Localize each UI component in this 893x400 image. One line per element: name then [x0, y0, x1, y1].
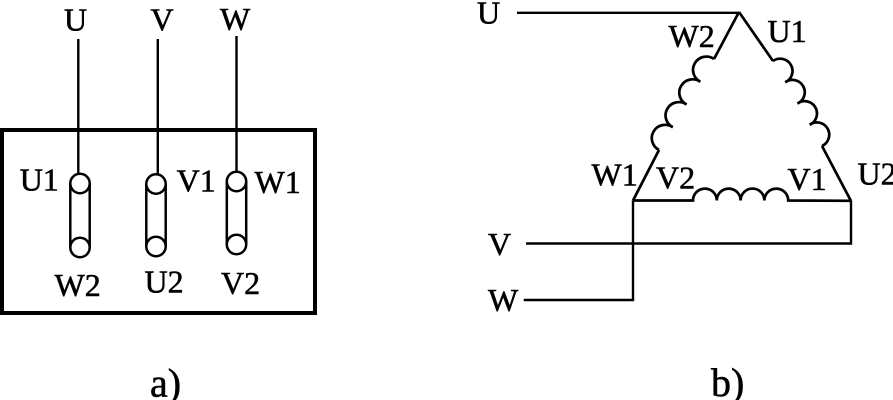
svg-text:V: V: [151, 2, 174, 38]
winding W2-W1 (left side of delta with coil): [633, 12, 739, 201]
wire W to W1 vertex: [524, 201, 633, 301]
svg-text:W: W: [488, 282, 519, 318]
svg-text:U1: U1: [768, 13, 807, 49]
svg-text:W1: W1: [255, 164, 301, 200]
svg-text:U2: U2: [858, 156, 893, 192]
wire V lead to terminal V1: [157, 39, 159, 177]
svg-text:W2: W2: [669, 18, 715, 54]
svg-text:b): b): [711, 360, 744, 400]
svg-text:V: V: [488, 226, 511, 262]
terminal link U1-W2: [70, 174, 89, 257]
wire U to delta apex: [517, 12, 739, 14]
svg-text:V2: V2: [221, 265, 260, 301]
svg-text:U: U: [64, 2, 87, 38]
svg-text:a): a): [150, 361, 181, 400]
terminal link V1-U2: [146, 174, 165, 256]
svg-text:U2: U2: [145, 264, 184, 300]
winding U1-U2 (right side of delta with coil): [739, 12, 851, 201]
wire U lead to terminal U1: [77, 39, 79, 176]
svg-text:V1: V1: [177, 163, 216, 199]
svg-text:V2: V2: [656, 160, 695, 196]
svg-text:W: W: [220, 1, 251, 37]
svg-text:U: U: [477, 0, 500, 31]
winding V2-V1 (bottom side of delta with coil): [633, 189, 851, 201]
svg-text:V1: V1: [788, 161, 827, 197]
terminal link W1-V2: [227, 172, 246, 254]
svg-text:W2: W2: [55, 267, 101, 303]
svg-text:W1: W1: [592, 157, 638, 193]
wire W lead to terminal W1: [235, 36, 237, 174]
wire V to U2 vertex: [526, 201, 851, 244]
terminal box: [2, 130, 315, 313]
svg-text:U1: U1: [20, 162, 59, 198]
